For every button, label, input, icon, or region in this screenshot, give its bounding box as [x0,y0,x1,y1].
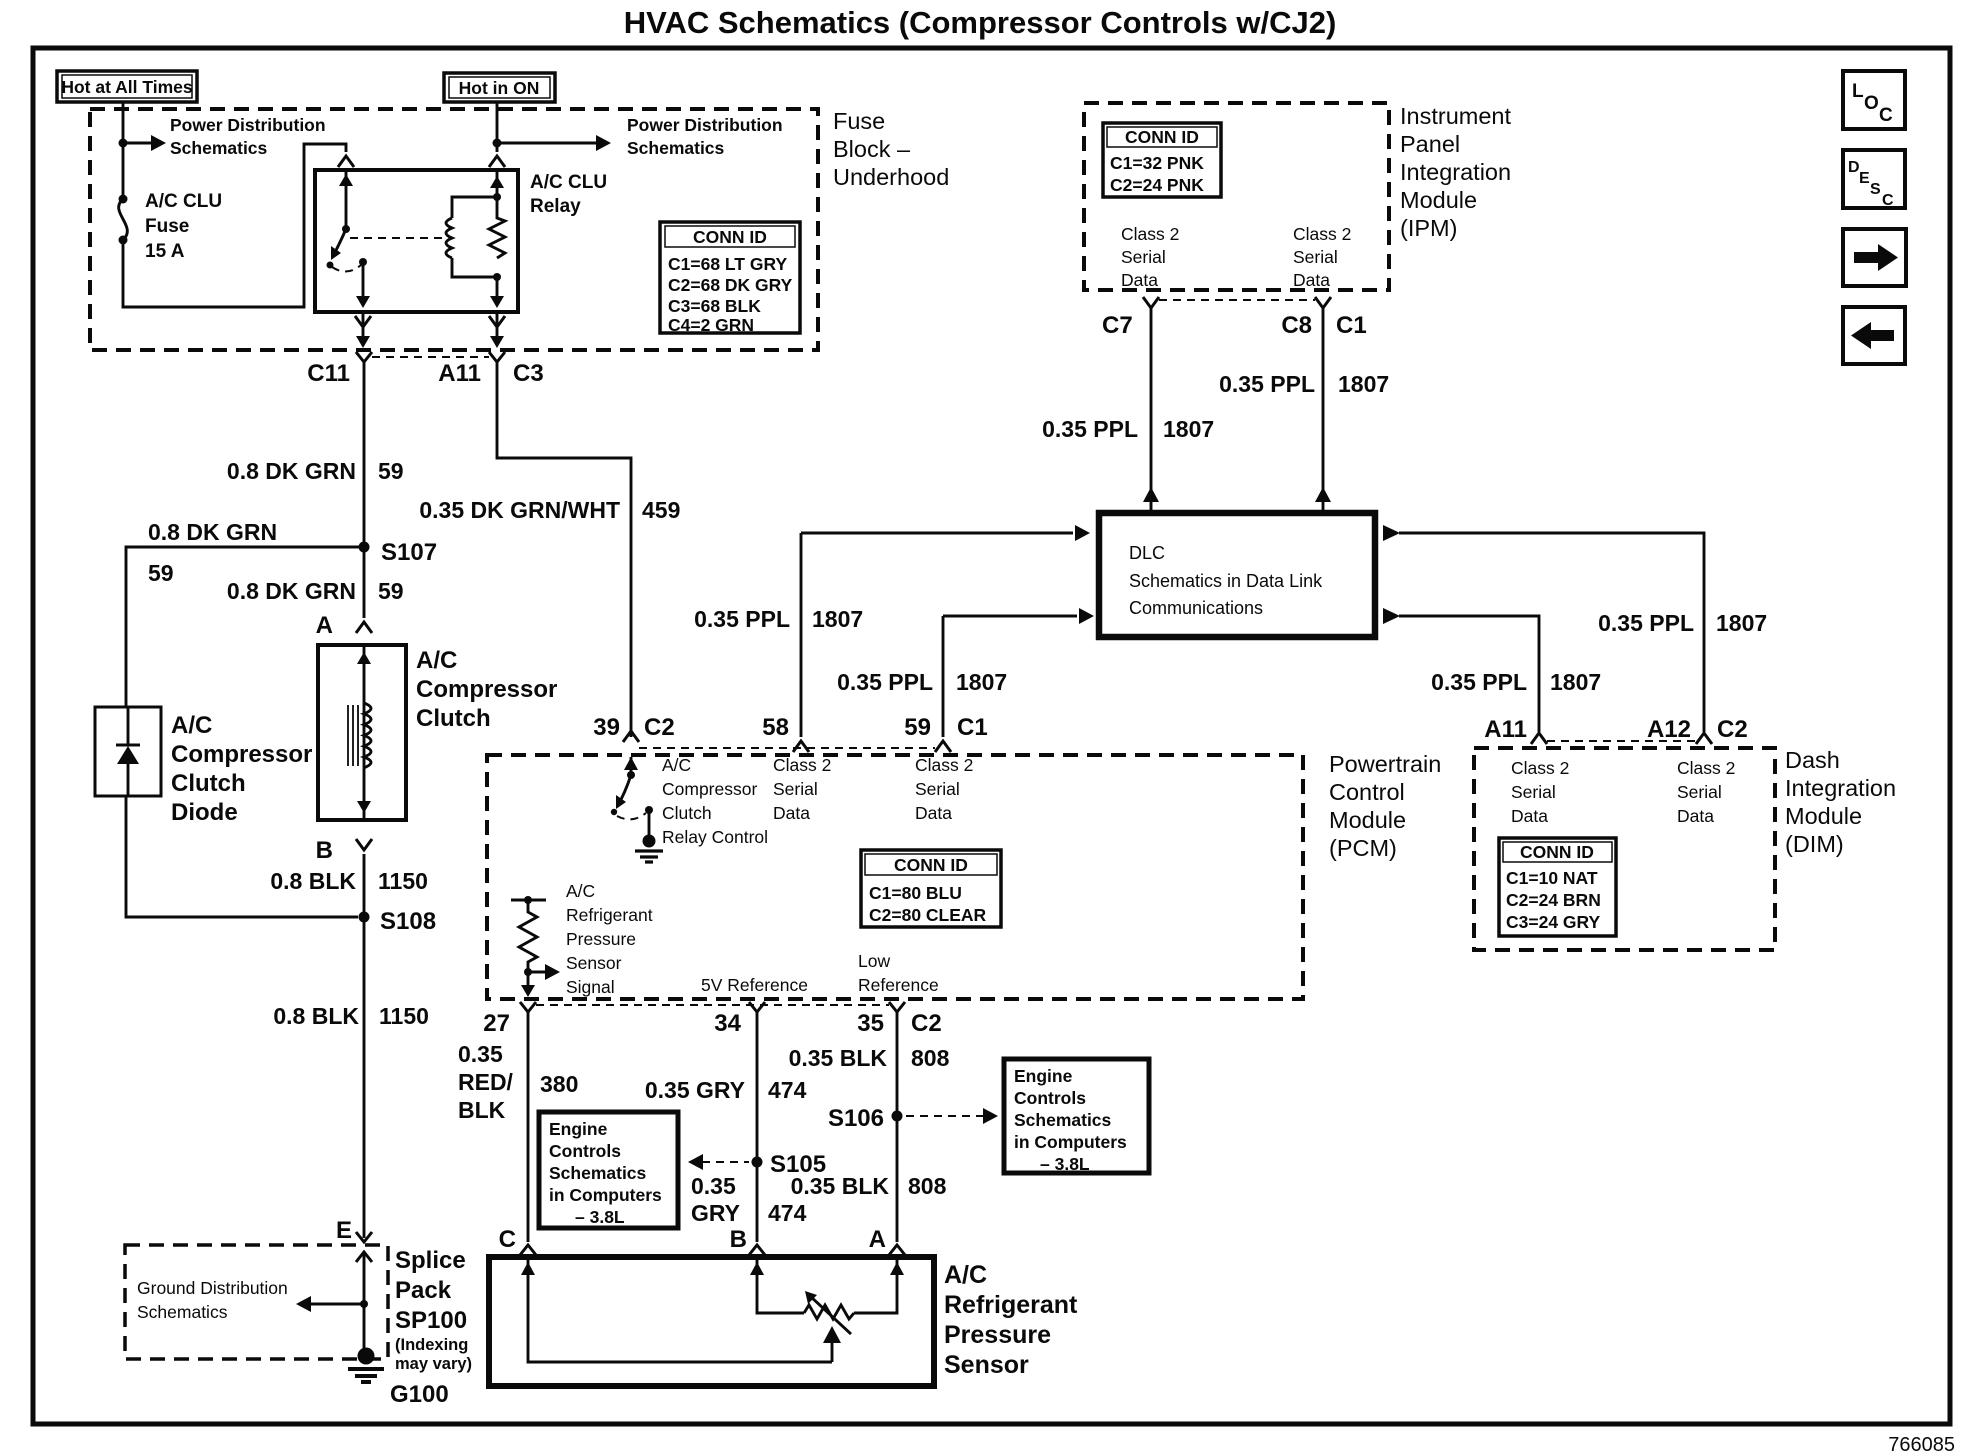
splice S105 [752,1151,827,1178]
svg-text:Sensor: Sensor [566,953,622,973]
relay dashed actuation link [350,237,444,239]
pin B (compressor clutch) [316,837,372,864]
resistor: A/C refrigerant pressure sensor signal (internal) [511,896,546,976]
svg-text:Relay Control: Relay Control [662,827,768,847]
svg-text:C1=80 BLU: C1=80 BLU [869,883,962,903]
wire resistor to pin 27 [521,972,535,997]
dashed arrow S105 to engine controls box [688,1154,749,1170]
svg-text:C2=24 PNK: C2=24 PNK [1110,175,1204,195]
label A/C Compressor Clutch Diode [171,712,312,826]
label 0.8 BLK 1150 (upper) [270,868,428,894]
wire 0.8 BLK 1150 (upper) [363,854,366,1238]
svg-text:S: S [1870,181,1881,198]
IPM dashed module box [1084,103,1389,290]
svg-text:Compressor: Compressor [416,676,557,703]
pin 34 (PCM bottom) [714,1002,765,1037]
svg-text:C1: C1 [957,714,988,741]
splice S106 [828,1105,903,1132]
pin 39 / pin C2 (PCM) [593,714,674,742]
svg-text:Power Distribution: Power Distribution [627,115,783,135]
svg-text:C3=68 BLK: C3=68 BLK [668,296,761,316]
wire 0.35 DK GRN/WHT 459 from C3 to PCM [497,362,631,737]
svg-text:L: L [1852,81,1864,102]
svg-text:E: E [336,1217,352,1244]
label Class 2 Serial Data (IPM right) [1293,224,1351,290]
svg-text:15 A: 15 A [145,241,185,262]
pin 35 / pin C2 (PCM bottom) [857,1002,941,1037]
node: junction dot on fuse feed [119,139,128,148]
wire relay switch output to C11 [355,312,371,348]
svg-text:A/C: A/C [944,1261,987,1289]
svg-text:Data: Data [1121,270,1158,290]
svg-text:59: 59 [904,714,931,741]
svg-text:1807: 1807 [1550,669,1601,695]
DIM dashed module box [1474,748,1775,950]
svg-text:C2=68 DK GRY: C2=68 DK GRY [668,275,793,295]
svg-text:A12: A12 [1647,716,1691,743]
node: junction dot on Hot in ON feed [493,139,502,148]
svg-text:D: D [1848,159,1860,176]
svg-text:0.35 GRY: 0.35 GRY [645,1077,745,1103]
svg-text:Clutch: Clutch [171,770,246,797]
svg-text:HVAC Schematics (Compressor Co: HVAC Schematics (Compressor Controls w/C… [624,5,1337,40]
svg-text:(DIM): (DIM) [1785,831,1844,857]
pin chevron into relay (switch side) [338,156,354,167]
svg-text:Data: Data [915,803,952,823]
svg-text:Power Distribution: Power Distribution [170,115,326,135]
wire DLC to DIM A11 (right lower) [1383,608,1539,732]
label 0.35 PPL 1807 (A12/C2 wire) [1598,610,1767,636]
fuse block underhood (dashed module box) [90,109,818,350]
svg-text:Class 2: Class 2 [1121,224,1179,244]
svg-text:Splice: Splice [395,1247,466,1274]
svg-text:Schematics: Schematics [627,138,725,158]
svg-text:Schematics: Schematics [549,1163,647,1183]
svg-text:BLK: BLK [458,1097,506,1123]
svg-text:Control: Control [1329,779,1405,805]
svg-text:C2: C2 [1717,716,1748,743]
svg-text:RED/: RED/ [458,1069,514,1095]
svg-text:S107: S107 [381,539,437,566]
svg-text:Compressor: Compressor [662,779,757,799]
relay coil (left winding) [446,197,497,277]
svg-text:0.35 PPL: 0.35 PPL [1431,669,1527,695]
button DESC [1843,150,1905,209]
svg-text:C2: C2 [644,714,675,741]
svg-text:Serial: Serial [773,779,818,799]
svg-text:A/C: A/C [662,755,691,775]
svg-text:GRY: GRY [691,1200,740,1226]
pin 59 / pin C1 (PCM) [904,714,987,752]
svg-text:C1=10 NAT: C1=10 NAT [1506,868,1598,888]
wire E to G100 [363,1252,366,1352]
connector bus dashed C7-C8 [1159,299,1315,301]
svg-text:C11: C11 [307,360,350,387]
svg-text:Data: Data [1511,806,1548,826]
svg-text:Integration: Integration [1785,775,1896,801]
PCM internal relay-control switch [611,757,638,815]
pin A11 (DIM) [1484,716,1547,744]
label A/C Refrigerant Pressure Sensor Signal [566,881,653,997]
svg-text:Class 2: Class 2 [1677,758,1735,778]
wire 0.35 BLK 808 (pin 35 to sensor A) [896,1012,899,1242]
sensor internal wire B to potentiometer [750,1257,804,1313]
label 0.35 PPL 1807 (58 wire) [694,606,863,632]
A/C compressor clutch box [318,645,406,820]
wire 0.35 PPL 1807 from C1 to DLC [1315,308,1331,511]
wire 0.35 PPL 1807 from C7 to DLC [1143,308,1159,511]
svg-text:1150: 1150 [379,1003,429,1029]
svg-text:Powertrain: Powertrain [1329,751,1441,777]
arrow sensor signal (internal) [528,964,560,980]
fuse A/C CLU 15A [119,195,128,245]
ground G100 [348,1348,449,1409]
pin E (splice pack) [336,1217,372,1262]
svg-text:Module: Module [1785,803,1862,829]
svg-text:G100: G100 [390,1381,449,1408]
wire PCM 59/C1 to DLC (left lower) [943,608,1094,737]
PCM switch contact to ground [645,806,653,836]
svg-text:0.35 DK GRN/WHT: 0.35 DK GRN/WHT [419,497,620,523]
svg-text:380: 380 [540,1071,578,1097]
button left-arrow [1843,307,1905,364]
svg-text:CONN ID: CONN ID [693,227,767,247]
label 0.35 GRY 474 (lower) [691,1173,807,1226]
svg-text:A/C CLU: A/C CLU [530,172,607,193]
svg-text:Sensor: Sensor [944,1351,1029,1379]
svg-text:766085: 766085 [1888,1434,1955,1456]
label Power Distribution Schematics (left) [170,115,326,158]
svg-text:Ground Distribution: Ground Distribution [137,1278,288,1298]
svg-text:Pack: Pack [395,1277,452,1304]
svg-text:Controls: Controls [549,1141,621,1161]
svg-text:0.8 DK GRN: 0.8 DK GRN [227,458,356,484]
svg-text:Pressure: Pressure [566,929,636,949]
svg-text:C3: C3 [513,360,544,387]
svg-text:C: C [499,1226,516,1253]
relay coil (right resistor) [489,197,505,281]
svg-text:Clutch: Clutch [662,803,712,823]
svg-text:A/C CLU: A/C CLU [145,191,222,212]
wire DLC to DIM C2 (right upper) [1383,525,1704,732]
svg-text:Integration: Integration [1400,159,1511,185]
wire from fuse to relay switch input [123,144,346,307]
svg-text:C3=24 GRY: C3=24 GRY [1506,912,1601,932]
svg-text:A/C: A/C [566,881,595,901]
pin A (compressor clutch) [316,612,372,639]
wire from Hot at All Times to fuse [122,102,125,199]
svg-text:Serial: Serial [1293,247,1338,267]
pin chevron into relay (coil side) [489,156,505,167]
pin 27 (PCM bottom) [483,1002,536,1037]
ground (relay control, internal) [635,835,663,863]
engine controls schematics box (right) [1004,1059,1149,1174]
label 0.35 PPL 1807 (C1 wire) [1219,371,1389,397]
svg-text:35: 35 [857,1010,884,1037]
wire from Hot in ON down to relay [496,102,499,152]
svg-text:59: 59 [148,560,174,586]
sensor internal wire C [521,1257,832,1362]
engine controls schematics box (left) [539,1112,678,1228]
svg-text:C1=32 PNK: C1=32 PNK [1110,153,1204,173]
label A/C Compressor Clutch Relay Control [662,755,768,847]
pin C8 / pin C1 [1281,297,1366,339]
dashed arrow S106 to engine controls box [906,1108,998,1124]
diode symbol [116,707,140,796]
svg-text:1150: 1150 [378,868,428,894]
svg-text:Refrigerant: Refrigerant [566,905,653,925]
svg-text:0.8 BLK: 0.8 BLK [270,868,356,894]
relay switch moving contact link (dashed arc) [332,265,361,272]
pin A11 [438,352,505,387]
label Class 2 Serial Data (PCM left) [773,755,831,823]
svg-text:Class 2: Class 2 [915,755,973,775]
title [624,5,1337,40]
svg-text:A/C: A/C [416,647,457,674]
potentiometer wiper from C [823,1326,841,1362]
svg-text:Serial: Serial [1511,782,1556,802]
svg-text:C1=68 LT GRY: C1=68 LT GRY [668,254,787,274]
CONN ID table (DIM) [1499,838,1616,936]
sensor internal wire to A [854,1257,904,1313]
relay switch output contact [356,258,370,308]
svg-text:1807: 1807 [1163,416,1214,442]
button right-arrow [1843,229,1906,286]
svg-text:0.8 DK GRN: 0.8 DK GRN [227,578,356,604]
svg-text:Compressor: Compressor [171,741,312,768]
svg-text:Engine: Engine [1014,1066,1073,1086]
svg-text:Hot in ON: Hot in ON [459,78,540,98]
label 5V Reference [701,975,808,995]
label Fuse Block Underhood [833,108,949,190]
svg-text:A11: A11 [1484,716,1527,743]
label 0.8 BLK 1150 (lower) [273,1003,429,1029]
svg-text:C4=2 GRN: C4=2 GRN [668,315,754,335]
svg-text:C7: C7 [1102,312,1133,339]
wire 0.35 GRY 474 (pin 34 to sensor B) [756,1012,759,1242]
svg-text:SP100: SP100 [395,1307,467,1334]
label box Hot at All Times [57,71,197,102]
pin C3 [513,360,544,387]
svg-text:Signal: Signal [566,977,615,997]
pin A12 / pin C2 (DIM) [1647,716,1748,744]
svg-text:1807: 1807 [812,606,863,632]
svg-text:808: 808 [911,1045,950,1071]
ground distribution dashed box [125,1245,388,1359]
svg-text:B: B [316,837,333,864]
svg-text:474: 474 [768,1077,807,1103]
label DLC Schematics in Data Link Communications [1129,543,1323,618]
potentiometer resistor [804,1305,854,1319]
svg-text:Class 2: Class 2 [1293,224,1351,244]
svg-text:0.35 PPL: 0.35 PPL [1598,610,1694,636]
svg-text:474: 474 [768,1200,807,1226]
label Power Distribution Schematics (right) [627,115,783,158]
svg-text:0.35 BLK: 0.35 BLK [789,1045,888,1071]
label Class 2 Serial Data (DIM right) [1677,758,1735,826]
svg-text:Pressure: Pressure [944,1321,1051,1349]
svg-text:A11: A11 [438,360,481,387]
svg-text:A/C: A/C [171,712,212,739]
svg-text:E: E [1859,170,1870,187]
svg-text:Communications: Communications [1129,598,1263,618]
CONN ID table (IPM) [1103,123,1221,197]
svg-text:Refrigerant: Refrigerant [944,1291,1078,1319]
svg-text:34: 34 [714,1010,741,1037]
svg-text:Schematics in Data Link: Schematics in Data Link [1129,571,1323,591]
A/C refrigerant pressure sensor box [489,1257,934,1386]
arrow to ground distribution schematics [296,1296,368,1312]
label Low Reference [858,951,939,995]
svg-text:Data: Data [773,803,810,823]
arrow to Power Distribution Schematics (right) [497,135,611,151]
svg-text:0.35: 0.35 [691,1173,736,1199]
A/C compressor clutch coil [348,645,371,820]
DLC box [1099,513,1375,637]
relay coil feed [490,169,504,201]
svg-text:1807: 1807 [1716,610,1767,636]
svg-text:0.35: 0.35 [458,1041,503,1067]
svg-text:Clutch: Clutch [416,705,491,732]
svg-text:Data: Data [1677,806,1714,826]
svg-text:Fuse: Fuse [145,216,189,237]
label A/C Refrigerant Pressure Sensor [944,1261,1078,1379]
svg-text:A: A [316,612,333,639]
CONN ID table (fuse block) [660,222,800,335]
button LOC [1843,71,1905,129]
label 0.8 DK GRN 59 (upper) [227,458,404,484]
svg-text:0.8 DK GRN: 0.8 DK GRN [148,519,277,545]
figure number 766085 [1888,1434,1955,1456]
label A/C Compressor Clutch [416,647,557,732]
svg-text:– 3.8L: – 3.8L [575,1207,625,1227]
svg-text:Schematics: Schematics [137,1302,228,1322]
label 0.8 DK GRN 59 (branch) [148,519,277,586]
svg-text:808: 808 [908,1173,947,1199]
label Dash Integration Module (DIM) [1785,747,1896,857]
svg-text:58: 58 [762,714,789,741]
pin C7 [1102,297,1159,339]
splice S108 [359,908,437,935]
svg-text:C: C [1882,192,1894,209]
svg-text:Controls: Controls [1014,1088,1086,1108]
label 0.35 PPL 1807 (59 wire) [837,669,1007,695]
svg-text:CONN ID: CONN ID [1125,127,1199,147]
svg-text:C2=24 BRN: C2=24 BRN [1506,890,1601,910]
svg-text:Serial: Serial [1121,247,1166,267]
label Class 2 Serial Data (DIM left) [1511,758,1569,826]
svg-text:Reference: Reference [858,975,939,995]
label 0.35 PPL 1807 (A11 wire) [1431,669,1601,695]
svg-text:CONN ID: CONN ID [1520,842,1594,862]
relay switch arm [327,169,354,269]
wire 0.35 RED/BLK 380 (pin 27 to sensor C) [527,1012,530,1242]
svg-text:– 3.8L: – 3.8L [1040,1154,1090,1174]
svg-text:in Computers: in Computers [1014,1132,1127,1152]
svg-text:(Indexing: (Indexing [395,1336,468,1354]
label 0.35 PPL 1807 (C7 wire) [1042,416,1214,442]
svg-text:1807: 1807 [956,669,1007,695]
pin C (sensor) [499,1226,536,1255]
svg-text:Module: Module [1400,187,1477,213]
svg-text:(PCM): (PCM) [1329,835,1397,861]
svg-text:C2=80 CLEAR: C2=80 CLEAR [869,905,987,925]
svg-text:459: 459 [642,497,680,523]
svg-text:Fuse: Fuse [833,108,885,134]
svg-text:59: 59 [378,458,404,484]
svg-text:1807: 1807 [1338,371,1389,397]
pin B (sensor) [730,1226,765,1255]
svg-text:C: C [1879,105,1893,126]
connector bus dashed PCM top [639,747,935,749]
svg-text:Underhood: Underhood [833,164,949,190]
label Ground Distribution Schematics [137,1278,288,1322]
label 0.8 DK GRN 59 (lower) [227,578,404,604]
svg-text:5V Reference: 5V Reference [701,975,808,995]
svg-text:0.8 BLK: 0.8 BLK [273,1003,359,1029]
pin 58 (PCM) [762,714,809,752]
svg-text:0.35 PPL: 0.35 PPL [1219,371,1315,397]
svg-text:C2: C2 [911,1010,942,1037]
arrow to Power Distribution Schematics (left) [123,135,166,151]
svg-text:Schematics: Schematics [170,138,268,158]
PCM switch dashed link [617,813,646,819]
svg-text:Schematics: Schematics [1014,1110,1112,1130]
svg-text:C1: C1 [1336,312,1367,339]
label Class 2 Serial Data (PCM right) [915,755,973,823]
connector bus dashed C11-A11 [372,356,489,358]
splice S107 [359,539,438,566]
svg-text:B: B [730,1226,747,1253]
label A/C CLU Relay [530,172,607,217]
wire PCM 58 to DLC (left upper) [801,525,1090,737]
svg-text:0.35 PPL: 0.35 PPL [1042,416,1138,442]
pin A (sensor) [869,1226,905,1255]
svg-text:(IPM): (IPM) [1400,215,1457,241]
label 0.35 DK GRN/WHT 459 [419,497,680,523]
potentiometer arrow [805,1291,851,1334]
svg-text:A: A [869,1226,886,1253]
svg-text:Data: Data [1293,270,1330,290]
svg-text:in Computers: in Computers [549,1185,662,1205]
svg-text:0.35 PPL: 0.35 PPL [837,669,933,695]
svg-text:S106: S106 [828,1105,884,1132]
svg-text:O: O [1864,93,1879,114]
svg-text:Class 2: Class 2 [773,755,831,775]
svg-text:CONN ID: CONN ID [894,855,968,875]
label 0.35 RED/ BLK 380 [458,1041,578,1123]
svg-text:Serial: Serial [1677,782,1722,802]
pin C11 [307,352,372,387]
svg-text:Panel: Panel [1400,131,1460,157]
relay coil output wire [490,277,504,308]
wire 0.8 DK GRN 59 from C11 down [363,362,366,618]
svg-text:may vary): may vary) [395,1355,472,1373]
svg-text:27: 27 [483,1010,510,1037]
svg-text:Module: Module [1329,807,1406,833]
svg-text:Instrument: Instrument [1400,103,1511,129]
connector bus dashed PCM bottom [536,1004,889,1006]
svg-text:0.35 BLK: 0.35 BLK [791,1173,890,1199]
wire 0.8 DK GRN 59 branch to diode [126,547,364,707]
svg-text:Serial: Serial [915,779,960,799]
svg-text:Dash: Dash [1785,747,1840,773]
svg-text:Diode: Diode [171,799,238,826]
PCM dashed module box [487,755,1303,999]
label 0.35 GRY 474 (upper) [645,1077,807,1103]
diode A/C compressor clutch box [95,707,161,796]
connector bus dashed DIM top [1547,740,1696,742]
